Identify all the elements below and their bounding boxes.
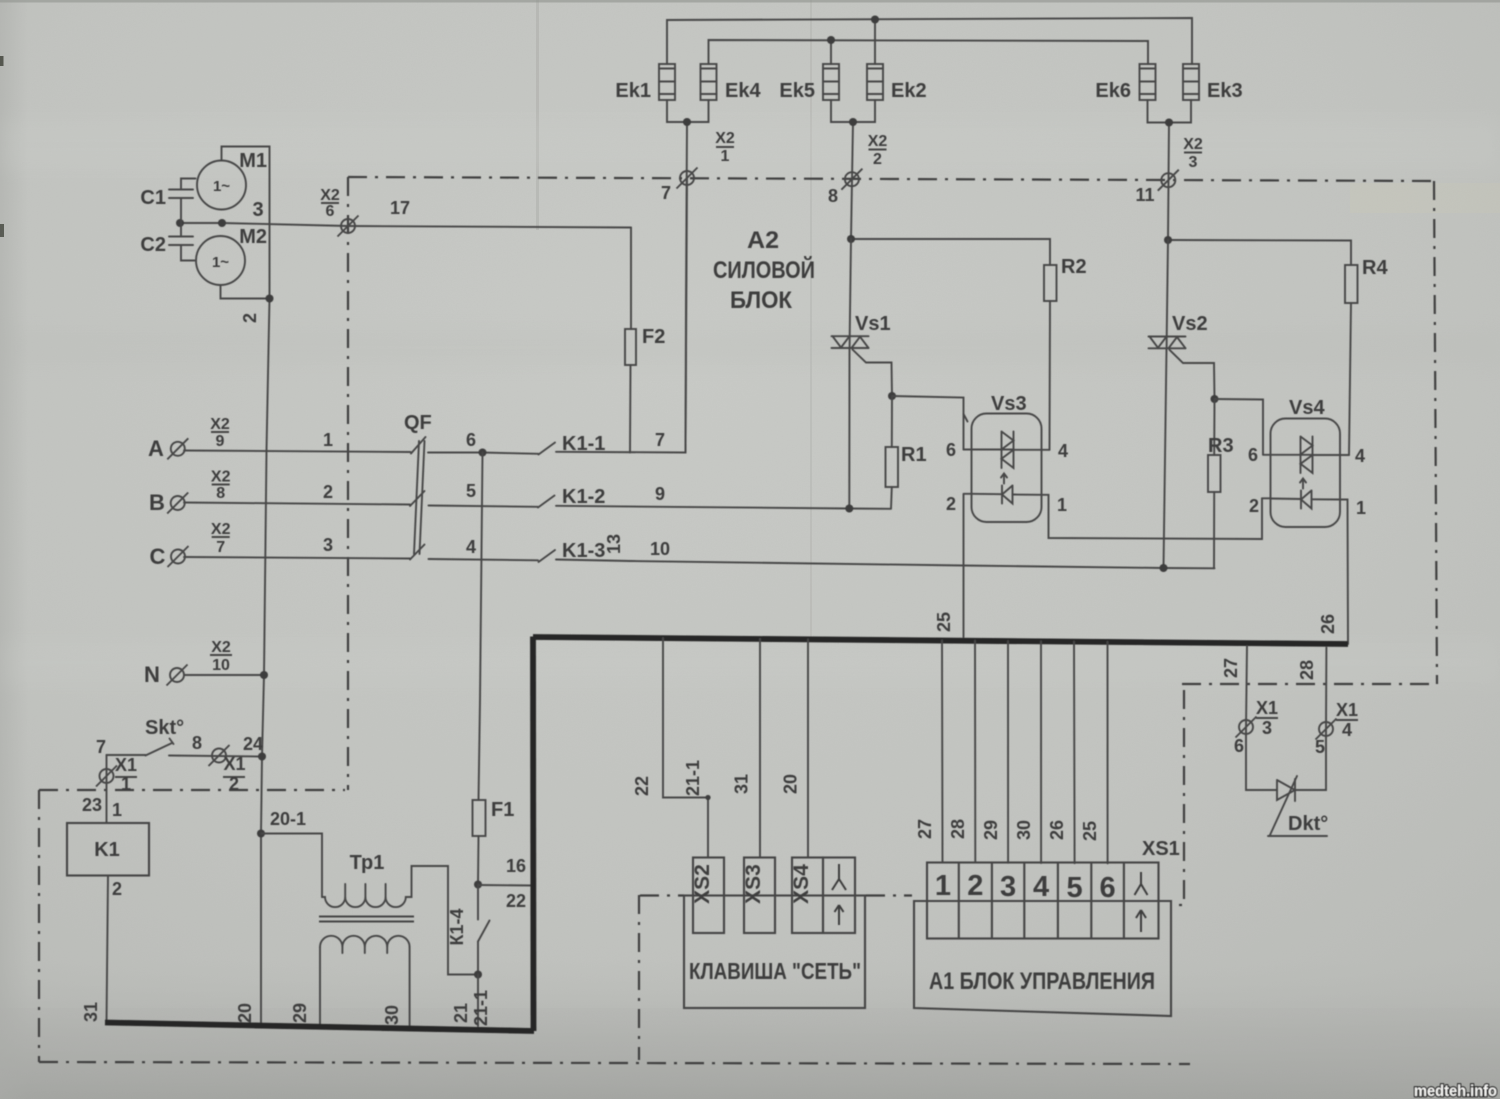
svg-text:26: 26 xyxy=(1318,614,1338,634)
svg-text:11: 11 xyxy=(1135,185,1154,205)
svg-text:XS2: XS2 xyxy=(691,864,714,904)
svg-text:X1: X1 xyxy=(1336,700,1358,720)
svg-text:K1-2: K1-2 xyxy=(562,486,605,508)
svg-text:XS1: XS1 xyxy=(1142,838,1180,860)
svg-text:2: 2 xyxy=(229,774,239,794)
svg-text:N: N xyxy=(144,662,160,687)
svg-text:Ek5: Ek5 xyxy=(779,80,815,102)
svg-text:29: 29 xyxy=(981,820,1001,840)
svg-text:6: 6 xyxy=(1100,872,1116,904)
svg-text:7: 7 xyxy=(216,539,225,556)
svg-text:24: 24 xyxy=(243,734,263,754)
svg-text:R1: R1 xyxy=(901,444,927,466)
svg-text:X2: X2 xyxy=(715,130,735,147)
svg-text:27: 27 xyxy=(1221,658,1241,678)
svg-text:29: 29 xyxy=(290,1003,310,1023)
svg-text:X2: X2 xyxy=(868,133,888,150)
svg-text:28: 28 xyxy=(948,819,968,839)
svg-text:Vs2: Vs2 xyxy=(1172,313,1208,335)
svg-text:25: 25 xyxy=(1080,821,1100,841)
svg-text:1: 1 xyxy=(721,148,730,165)
svg-text:13: 13 xyxy=(604,534,624,554)
svg-text:1~: 1~ xyxy=(213,178,230,195)
svg-text:21-1: 21-1 xyxy=(471,990,491,1026)
svg-text:9: 9 xyxy=(655,484,665,504)
svg-text:21-1: 21-1 xyxy=(683,760,703,796)
svg-text:7: 7 xyxy=(655,430,665,450)
svg-text:C1: C1 xyxy=(140,187,166,209)
svg-text:Ek3: Ek3 xyxy=(1207,80,1243,102)
svg-text:4: 4 xyxy=(466,537,476,557)
svg-text:А: А xyxy=(148,436,164,461)
svg-text:7: 7 xyxy=(96,737,106,757)
svg-text:3: 3 xyxy=(1189,154,1198,171)
svg-text:2: 2 xyxy=(946,494,956,514)
svg-text:3: 3 xyxy=(252,199,263,221)
svg-text:3: 3 xyxy=(1262,718,1272,738)
svg-text:30: 30 xyxy=(382,1005,402,1025)
svg-text:А1 БЛОК УПРАВЛЕНИЯ: А1 БЛОК УПРАВЛЕНИЯ xyxy=(929,968,1155,995)
svg-text:6: 6 xyxy=(946,440,956,460)
svg-text:16: 16 xyxy=(506,856,526,876)
svg-text:20: 20 xyxy=(781,774,801,794)
svg-text:K1-1: K1-1 xyxy=(562,433,605,455)
svg-text:4: 4 xyxy=(1342,720,1352,740)
svg-text:17: 17 xyxy=(390,198,410,218)
svg-text:А2: А2 xyxy=(747,227,779,254)
svg-text:4: 4 xyxy=(1355,446,1365,466)
svg-text:4: 4 xyxy=(1058,441,1068,461)
svg-text:КЛАВИША "СЕТЬ": КЛАВИША "СЕТЬ" xyxy=(689,958,861,984)
svg-text:F2: F2 xyxy=(642,326,665,348)
svg-text:Vs4: Vs4 xyxy=(1289,397,1325,419)
svg-text:R4: R4 xyxy=(1362,257,1388,279)
svg-text:X1: X1 xyxy=(1256,698,1278,718)
svg-text:СИЛОВОЙ: СИЛОВОЙ xyxy=(713,256,815,284)
svg-text:2: 2 xyxy=(1249,496,1259,516)
svg-text:K1: K1 xyxy=(94,839,120,861)
svg-text:medteh.info: medteh.info xyxy=(1414,1083,1497,1099)
svg-text:2: 2 xyxy=(240,313,260,323)
svg-text:Dkt°: Dkt° xyxy=(1288,813,1328,835)
svg-text:2: 2 xyxy=(323,482,333,502)
svg-text:8: 8 xyxy=(192,733,202,753)
svg-text:QF: QF xyxy=(404,412,432,434)
svg-text:X1: X1 xyxy=(115,755,137,775)
svg-text:22: 22 xyxy=(506,891,526,911)
svg-text:X2: X2 xyxy=(211,639,231,656)
svg-text:Ek2: Ek2 xyxy=(891,80,927,102)
svg-text:1~: 1~ xyxy=(212,254,229,271)
svg-text:БЛОК: БЛОК xyxy=(730,287,792,314)
svg-text:К1-4: К1-4 xyxy=(447,908,467,945)
svg-text:2: 2 xyxy=(112,879,122,899)
svg-text:R2: R2 xyxy=(1061,256,1087,278)
svg-text:1: 1 xyxy=(112,800,122,820)
svg-text:В: В xyxy=(149,490,165,515)
svg-text:23: 23 xyxy=(82,795,102,815)
svg-text:Ek4: Ek4 xyxy=(725,80,761,102)
svg-text:6: 6 xyxy=(326,203,335,220)
svg-text:5: 5 xyxy=(466,481,476,501)
svg-text:9: 9 xyxy=(216,433,225,450)
svg-text:3: 3 xyxy=(1000,871,1016,903)
svg-text:10: 10 xyxy=(212,657,230,674)
svg-text:27: 27 xyxy=(915,819,935,839)
svg-text:С: С xyxy=(150,544,166,569)
svg-text:X2: X2 xyxy=(211,521,231,538)
svg-text:25: 25 xyxy=(934,612,954,632)
svg-text:2: 2 xyxy=(873,151,882,168)
svg-text:26: 26 xyxy=(1047,820,1067,840)
svg-text:10: 10 xyxy=(650,539,670,559)
svg-text:3: 3 xyxy=(323,535,333,555)
svg-text:Vs1: Vs1 xyxy=(855,313,891,335)
svg-text:6: 6 xyxy=(1234,736,1244,756)
svg-text:20: 20 xyxy=(235,1003,255,1023)
svg-text:X2: X2 xyxy=(211,469,231,486)
svg-text:M2: M2 xyxy=(239,226,267,248)
svg-text:8: 8 xyxy=(216,485,225,502)
svg-text:M1: M1 xyxy=(239,150,267,172)
svg-text:31: 31 xyxy=(732,774,752,794)
svg-text:4: 4 xyxy=(1033,871,1049,903)
svg-text:30: 30 xyxy=(1014,820,1034,840)
svg-text:R3: R3 xyxy=(1208,435,1234,457)
svg-text:1: 1 xyxy=(121,774,131,794)
svg-text:1: 1 xyxy=(1057,495,1067,515)
svg-text:8: 8 xyxy=(828,186,838,206)
svg-text:Vs3: Vs3 xyxy=(991,393,1027,415)
svg-text:5: 5 xyxy=(1315,737,1325,757)
svg-text:K1-3: K1-3 xyxy=(562,540,605,562)
svg-text:1: 1 xyxy=(935,870,951,902)
svg-text:21: 21 xyxy=(451,1003,471,1023)
svg-text:6: 6 xyxy=(466,430,476,450)
svg-text:Ek1: Ek1 xyxy=(615,80,651,102)
svg-text:1: 1 xyxy=(1356,498,1366,518)
svg-text:F1: F1 xyxy=(491,799,514,821)
svg-text:X2: X2 xyxy=(1183,136,1203,153)
svg-text:XS3: XS3 xyxy=(742,864,765,904)
svg-text:5: 5 xyxy=(1067,872,1083,904)
svg-text:7: 7 xyxy=(661,183,671,203)
svg-text:28: 28 xyxy=(1297,660,1317,680)
svg-text:C2: C2 xyxy=(140,234,166,256)
svg-text:22: 22 xyxy=(632,776,652,796)
svg-text:1: 1 xyxy=(323,430,333,450)
svg-text:X2: X2 xyxy=(210,416,230,433)
svg-text:31: 31 xyxy=(81,1002,101,1022)
svg-text:X1: X1 xyxy=(223,754,245,774)
svg-text:XS4: XS4 xyxy=(790,864,813,904)
svg-text:6: 6 xyxy=(1248,445,1258,465)
svg-text:20-1: 20-1 xyxy=(270,809,306,829)
svg-text:X2: X2 xyxy=(320,187,340,204)
svg-text:Тр1: Тр1 xyxy=(350,852,385,874)
svg-text:2: 2 xyxy=(967,870,983,902)
svg-text:Skt°: Skt° xyxy=(145,717,184,739)
svg-text:Ek6: Ek6 xyxy=(1095,80,1131,102)
